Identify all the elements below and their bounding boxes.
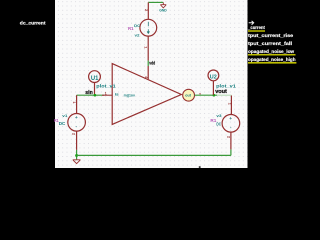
wire vout pale segment: [217, 94, 231, 96]
node out (yellow): [183, 89, 195, 101]
svg-text:+: +: [229, 117, 232, 122]
wire vout net: [195, 94, 218, 96]
svg-text:m)(1nv: m)(1nv: [124, 92, 136, 97]
svg-text:DC: DC: [134, 23, 140, 28]
svg-text:v1: v1: [62, 113, 68, 118]
junction on sin: [94, 94, 97, 97]
svg-text:plot_v1: plot_v1: [216, 83, 236, 88]
current source R1 top: [140, 19, 157, 36]
svg-text:tput_current_rise: tput_current_rise: [248, 33, 294, 38]
svg-text:sin: sin: [85, 90, 92, 96]
svg-text:plot_v1: plot_v1: [96, 84, 116, 89]
wire red stub to opamp input: [102, 94, 112, 96]
probe U1: [89, 71, 101, 83]
ground symbol bottom: [73, 160, 81, 164]
wire vdd to opamp: [147, 66, 149, 79]
vsource V1: [68, 114, 86, 132]
wire input net sin: [77, 94, 104, 96]
wire v3 bottom stem red: [230, 132, 232, 149]
svg-text:R1: R1: [128, 26, 134, 31]
svg-text:v3: v3: [216, 113, 222, 118]
wire ground net left: [76, 150, 78, 160]
wire v3 top stem red: [230, 95, 232, 114]
menu arrow: [249, 21, 254, 25]
svg-text:out: out: [185, 93, 191, 97]
svg-text:v2: v2: [135, 32, 141, 37]
svg-text:1: 1: [105, 91, 107, 95]
svg-text:tput_current_fall: tput_current_fall: [248, 41, 292, 46]
wire U1 stem: [94, 83, 96, 96]
right panel menu: [247, 21, 296, 64]
svg-text:DC: DC: [59, 121, 66, 126]
vsource V3: [222, 115, 240, 133]
wire V1 bottom stem: [76, 131, 78, 150]
cursor speck: [199, 166, 201, 168]
svg-text:U2: U2: [210, 74, 217, 80]
junction vout: [213, 94, 216, 97]
svg-text:+: +: [75, 116, 78, 121]
ground GND top symbol: [160, 2, 166, 8]
wire V1 top stem: [76, 95, 78, 113]
junction bottom left: [75, 154, 78, 157]
svg-text:vdd: vdd: [149, 61, 155, 66]
svg-text:_current: _current: [247, 25, 265, 30]
probe U2: [208, 70, 219, 81]
op-amp U triangle: [112, 64, 181, 125]
svg-text:vout: vout: [215, 89, 227, 95]
svg-text:GND: GND: [159, 8, 167, 13]
svg-text:dc_current: dc_current: [20, 21, 46, 26]
wire v3 bottom stem green: [230, 149, 232, 155]
svg-text:opagated_noise_high: opagated_noise_high: [248, 57, 296, 62]
wire vdd segment: [147, 61, 149, 66]
wire I1 top stem: [147, 2, 149, 19]
svg-text:U1: U1: [91, 76, 99, 82]
svg-text:DC: DC: [216, 122, 221, 127]
wire U2 stem: [212, 81, 214, 95]
wire I1 bottom stem: [147, 36, 149, 61]
svg-text:opagated_noise_low: opagated_noise_low: [248, 49, 295, 54]
wire bottom rail: [77, 154, 231, 156]
wire GND net top: [148, 1, 163, 3]
